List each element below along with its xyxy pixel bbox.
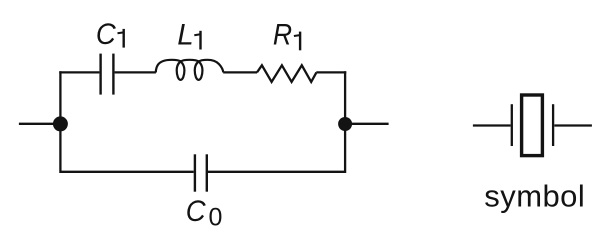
- svg-text:C: C: [96, 18, 117, 51]
- crystal right lead: [554, 124, 592, 126]
- node left junction dot: [53, 116, 68, 131]
- svg-text:0: 0: [209, 203, 223, 231]
- svg-text:R: R: [273, 19, 292, 52]
- capacitor C1 plates: [101, 54, 114, 95]
- wire L1 to R1: [223, 71, 257, 73]
- inductor L1 coil: [156, 60, 224, 80]
- label subscript 1 of C1: [118, 29, 124, 48]
- label subscript 1 of L1: [194, 31, 200, 50]
- crystal left lead: [473, 124, 511, 126]
- wire C1 to L1: [115, 71, 156, 73]
- wire left vertical: [59, 71, 61, 173]
- label subscript 1 of R1: [294, 32, 300, 51]
- resistor R1 zigzag: [257, 65, 316, 82]
- wire left input stub: [19, 123, 56, 125]
- wire bottom-right segment: [208, 171, 345, 173]
- wire right vertical: [344, 71, 346, 173]
- crystal left electrode plate: [511, 104, 513, 146]
- node right junction dot: [338, 117, 352, 131]
- svg-text:C: C: [186, 195, 207, 228]
- crystal right electrode plate: [552, 104, 554, 146]
- svg-text:L: L: [177, 19, 193, 52]
- wire top-left segment to C1: [59, 71, 99, 73]
- capacitor C0 plates: [195, 154, 207, 191]
- wire bottom-left segment: [60, 171, 193, 173]
- wire R1 to right corner: [316, 71, 346, 73]
- wire right output stub: [349, 123, 389, 125]
- svg-text:symbol: symbol: [484, 179, 585, 214]
- crystal body rectangle: [522, 95, 543, 156]
